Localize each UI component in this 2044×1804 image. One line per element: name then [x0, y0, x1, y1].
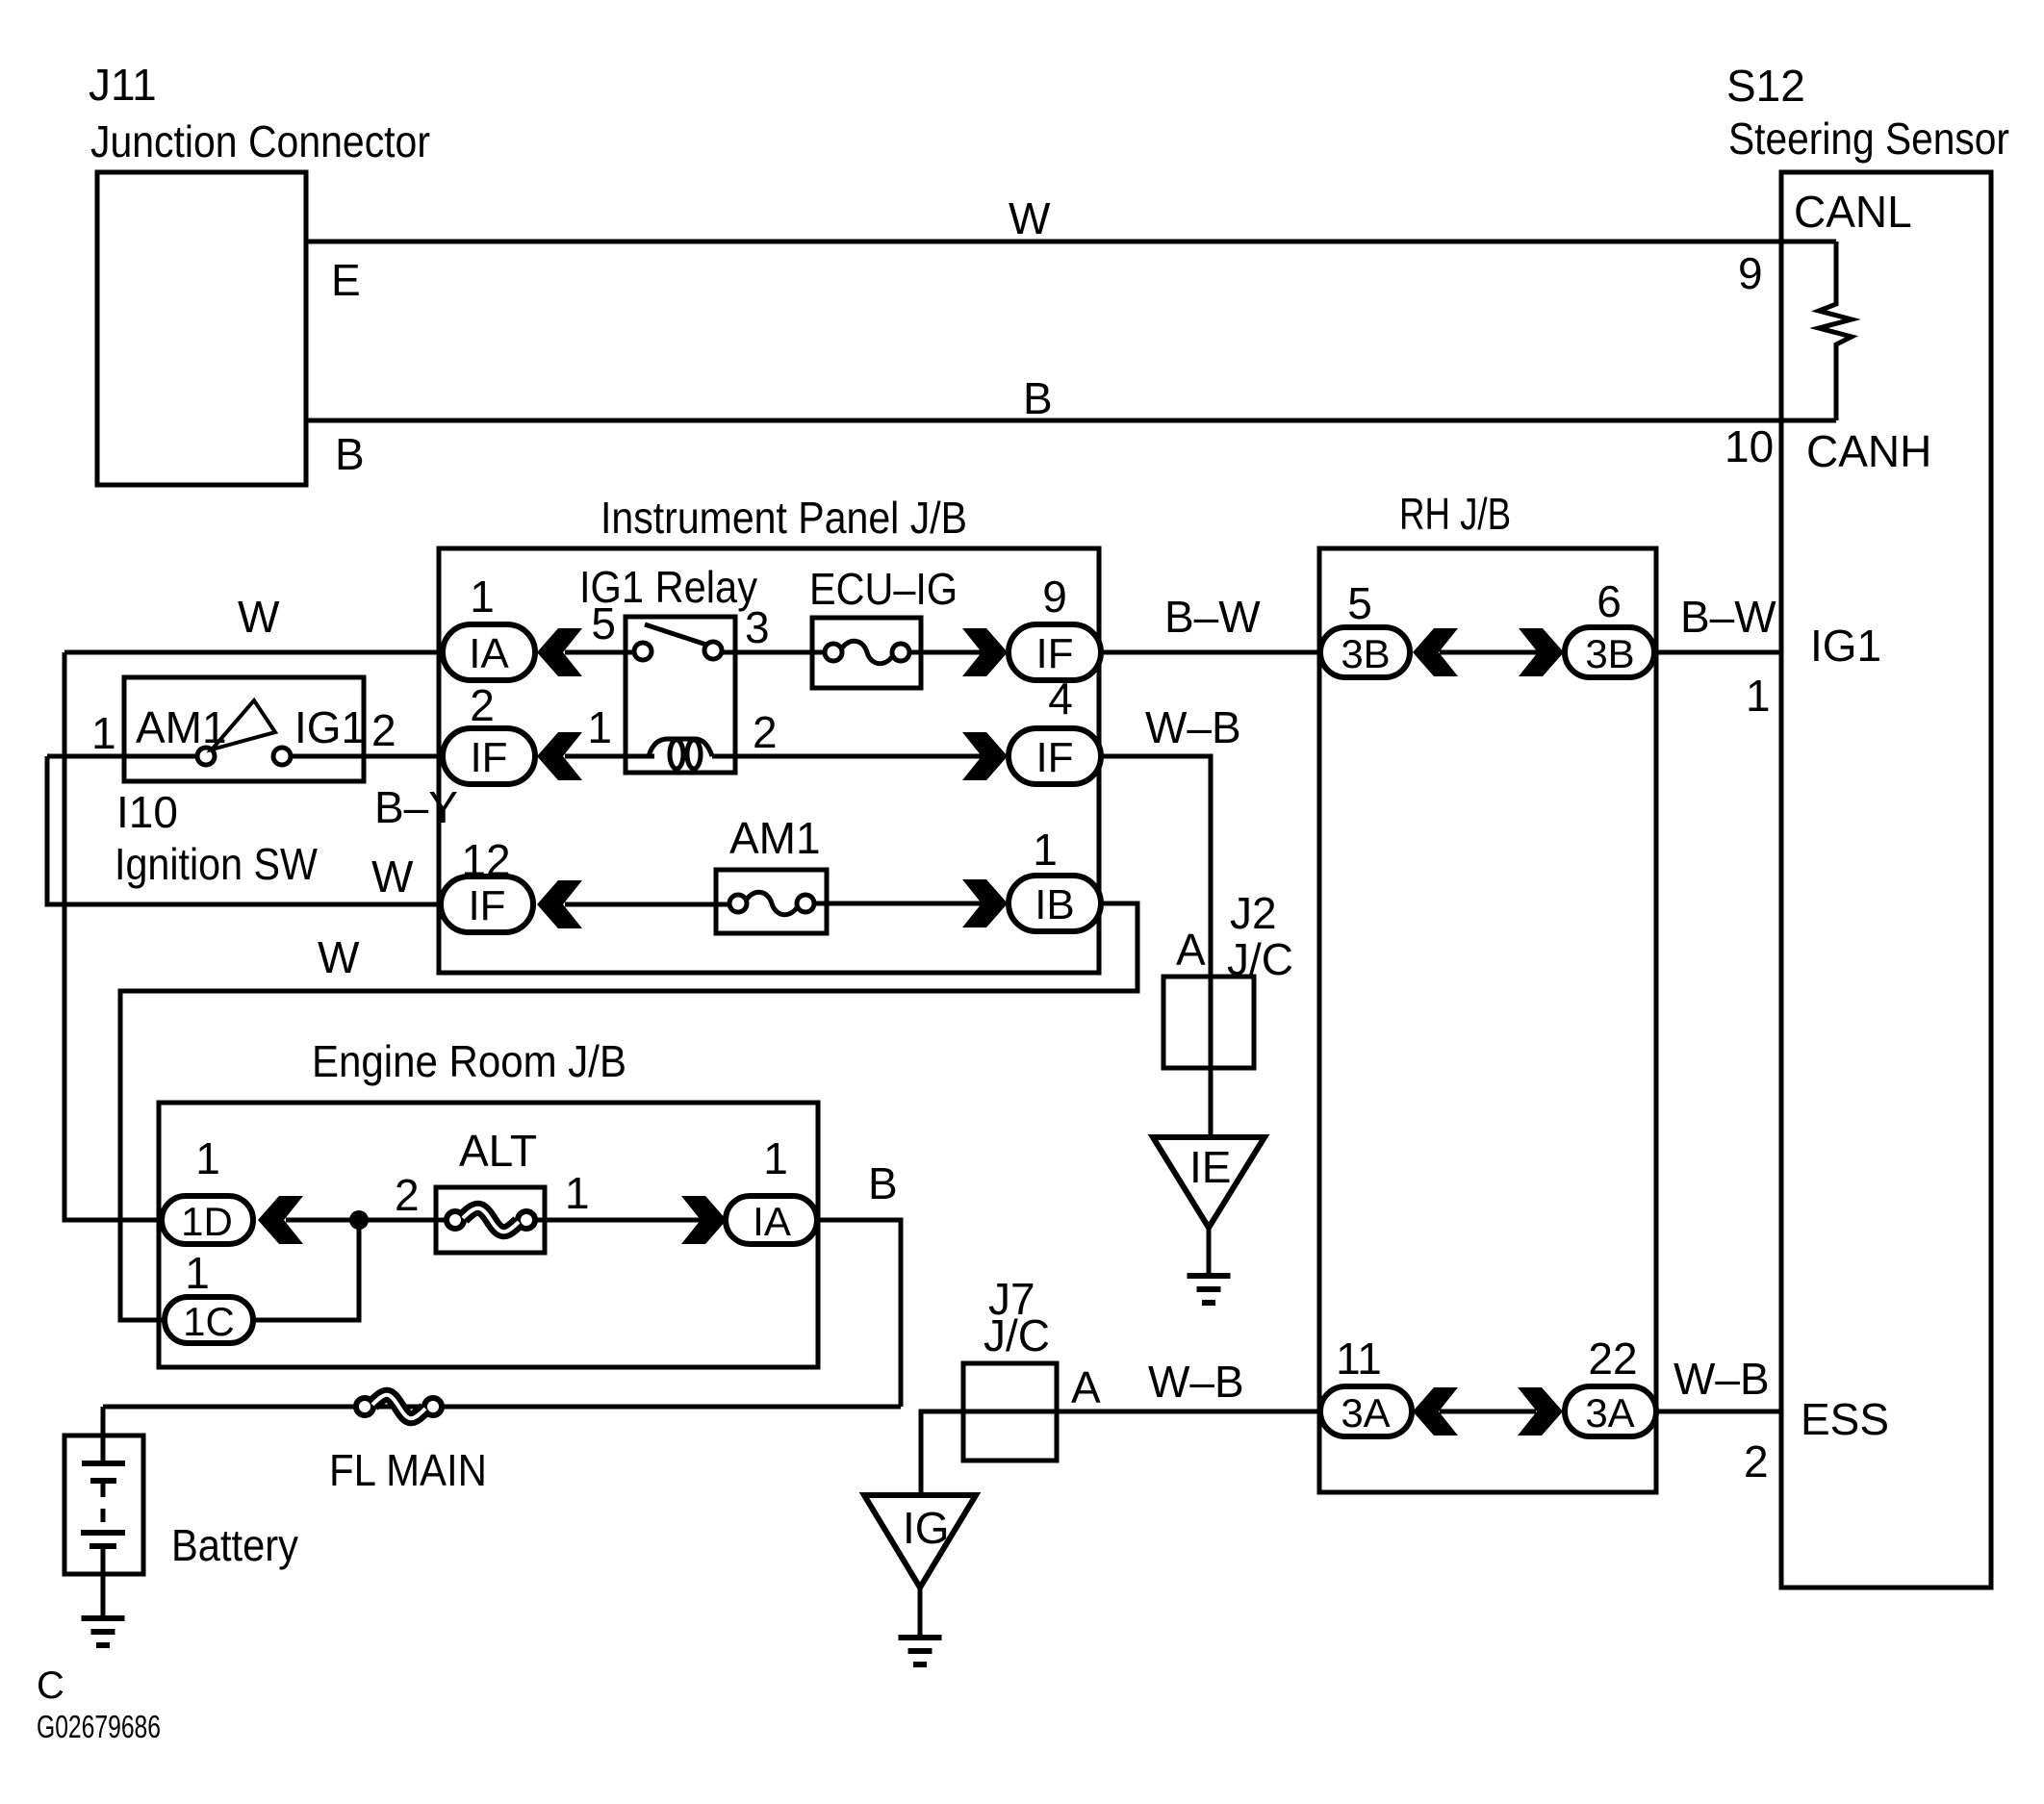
svg-text:1: 1 [195, 1133, 220, 1183]
junction connector J2 box [1163, 977, 1254, 1068]
svg-text:Junction Connector: Junction Connector [90, 116, 430, 166]
svg-text:ESS: ESS [1801, 1394, 1889, 1444]
svg-text:2: 2 [753, 707, 778, 757]
svg-text:IF: IF [470, 734, 507, 781]
connector IF pin 9 [1009, 624, 1101, 680]
chevron at IF 2 [537, 732, 582, 780]
wire battery negative lead [101, 1546, 106, 1618]
fuse ALT box [436, 1187, 545, 1253]
svg-text:Battery: Battery [171, 1520, 298, 1570]
instrument panel J/B box [439, 548, 1099, 973]
svg-text:2: 2 [1744, 1436, 1769, 1486]
battery plate short top [90, 1478, 116, 1484]
svg-text:W: W [1009, 193, 1051, 243]
svg-text:ALT: ALT [459, 1126, 537, 1176]
ground symbol (battery) [82, 1615, 125, 1621]
svg-text:AM1: AM1 [729, 813, 821, 863]
junction connector J7 box [963, 1363, 1057, 1461]
svg-text:3: 3 [745, 602, 770, 652]
svg-text:2: 2 [470, 680, 495, 730]
wire W-B: IG ground stub to 3A-11 [921, 1411, 1323, 1494]
svg-text:Instrument Panel J/B: Instrument Panel J/B [600, 493, 967, 543]
wire 1D chevron to ALT [286, 1218, 457, 1223]
junction connector J11 [97, 172, 306, 485]
svg-text:IF: IF [1035, 734, 1073, 781]
relay switch arm [645, 624, 706, 645]
svg-text:A: A [1071, 1362, 1101, 1412]
junction node (ALT/1C) [349, 1210, 369, 1230]
svg-text:CANL: CANL [1794, 187, 1912, 237]
svg-text:B: B [868, 1158, 898, 1208]
svg-text:1D: 1D [181, 1199, 233, 1244]
chevron at 3A-11 [1413, 1387, 1458, 1436]
svg-text:11: 11 [1336, 1334, 1382, 1384]
svg-text:FL MAIN: FL MAIN [329, 1445, 487, 1495]
chevron into IA engine [681, 1196, 727, 1244]
wire B: IA to FL MAIN [818, 1220, 901, 1407]
wire 1C to junction node [253, 1220, 359, 1320]
svg-text:5: 5 [1347, 578, 1372, 628]
chevron at IA [537, 628, 582, 676]
wire W: ignition 1 loop to IF 12 [47, 756, 443, 904]
wire chevron to relay pin 5 [565, 650, 637, 655]
chevron into IF 9 [962, 628, 1008, 676]
svg-text:ECU–IG: ECU–IG [809, 564, 958, 614]
svg-text:J/C: J/C [984, 1310, 1050, 1360]
ignition contact IG1 [273, 748, 291, 765]
battery plate short bottom [89, 1543, 116, 1549]
connector IF pin 12 [441, 877, 533, 932]
svg-text:AM1: AM1 [136, 702, 227, 752]
wire ALT to chevron [535, 1218, 702, 1223]
svg-text:CANH: CANH [1806, 426, 1931, 476]
svg-text:2: 2 [371, 705, 396, 755]
svg-text:1: 1 [91, 708, 116, 758]
svg-text:C: C [37, 1664, 64, 1707]
svg-text:9: 9 [1042, 572, 1067, 622]
svg-text:B: B [335, 429, 365, 479]
wire chevron to relay coil [565, 754, 654, 759]
svg-text:W–B: W–B [1148, 1357, 1244, 1407]
svg-text:IA: IA [469, 630, 509, 677]
wire B-Y: ignition 2 to IF 2 [290, 754, 445, 759]
ground triangle IE [1153, 1137, 1265, 1228]
svg-text:IG: IG [903, 1503, 950, 1553]
wire into ignition AM1 contact [47, 754, 198, 759]
ignition switch I10 box [124, 677, 364, 781]
fuse AM1 box [716, 870, 827, 933]
wire relay coil to IF 4 [712, 754, 983, 759]
svg-text:G02679686: G02679686 [37, 1709, 161, 1744]
wire IE triangle to ground [1207, 1228, 1212, 1276]
battery cell dashed link [101, 1484, 106, 1530]
svg-text:IG1: IG1 [1810, 621, 1881, 671]
connector IA (instrument panel) [443, 624, 535, 680]
svg-text:Ignition SW: Ignition SW [115, 839, 319, 889]
wire W-B: 3A-22 to S12 ESS [1655, 1410, 1781, 1414]
RH J/B box [1319, 548, 1656, 1492]
engine room J/B box [159, 1103, 818, 1367]
chevron at 3B-6 [1519, 628, 1564, 676]
wire battery positive lead [101, 1407, 106, 1463]
fuse element AM1 [729, 895, 747, 912]
svg-text:1: 1 [587, 702, 612, 752]
svg-text:10: 10 [1725, 421, 1774, 471]
svg-text:W–B: W–B [1145, 702, 1241, 752]
connector 3B pin 6 [1565, 627, 1654, 677]
svg-text:IG1 Relay: IG1 Relay [579, 562, 757, 612]
chevron into IF 4 [962, 732, 1008, 780]
svg-text:IE: IE [1189, 1142, 1231, 1192]
chevron at IF 12 [537, 880, 582, 928]
chevron at 3A-22 [1518, 1387, 1563, 1436]
svg-text:W–B: W–B [1674, 1354, 1770, 1404]
wire FL MAIN: battery to B junction [103, 1405, 901, 1410]
svg-text:9: 9 [1738, 248, 1763, 298]
wire B-W: 3B-6 to S12 IG1 [1654, 650, 1781, 655]
wire chevron to AM1 fuse [565, 902, 738, 907]
connector 1D [162, 1196, 253, 1244]
svg-text:1: 1 [1033, 825, 1058, 875]
svg-text:Steering Sensor: Steering Sensor [1728, 114, 2009, 164]
svg-text:IA: IA [753, 1199, 791, 1244]
ignition contact AM1 [197, 748, 215, 765]
relay coil [649, 739, 712, 756]
connector 3A pin 11 [1320, 1386, 1412, 1436]
wire W: IB loop to 1C [120, 903, 1137, 1320]
wire W-B: IF 4 to J2 junction [1101, 756, 1211, 1139]
chevron at 3B-5 [1413, 628, 1458, 676]
battery plate long top [82, 1461, 125, 1466]
svg-text:1: 1 [763, 1133, 788, 1183]
svg-text:1: 1 [185, 1248, 210, 1298]
chevron into IB [962, 879, 1008, 927]
svg-text:J11: J11 [89, 60, 157, 110]
connector 3A pin 22 [1565, 1386, 1656, 1436]
connector 1C [165, 1297, 253, 1343]
wire W: junction to 1D [64, 652, 166, 1220]
svg-text:Engine Room J/B: Engine Room J/B [312, 1036, 626, 1086]
fuse ECU-IG box [812, 618, 921, 688]
svg-text:IB: IB [1035, 881, 1075, 928]
svg-text:RH J/B: RH J/B [1399, 489, 1511, 539]
svg-text:IG1: IG1 [294, 702, 366, 752]
wire relay pin 3 to fuse [722, 650, 826, 655]
steering sensor S12 [1781, 172, 1991, 1588]
svg-text:IF: IF [1035, 630, 1073, 677]
svg-text:3B: 3B [1585, 631, 1634, 676]
svg-text:B–W: B–W [1164, 592, 1261, 642]
svg-text:4: 4 [1048, 673, 1073, 724]
wire B: J11 pin B to S12 pin 10 CANH [306, 419, 1836, 423]
connector IA (engine room) [726, 1196, 817, 1244]
wire B-W: IF 9 to RH J/B 3B-5 [1101, 650, 1323, 655]
battery plate long bottom [81, 1530, 125, 1536]
ground symbol (IG) [899, 1635, 942, 1640]
svg-text:S12: S12 [1726, 61, 1805, 111]
svg-text:IF: IF [468, 882, 505, 929]
svg-text:B–W: B–W [1680, 592, 1776, 642]
svg-text:6: 6 [1597, 576, 1622, 626]
svg-text:A: A [1176, 925, 1206, 975]
svg-text:B–Y: B–Y [374, 782, 458, 832]
wire between 3A chevrons [1440, 1410, 1536, 1414]
ground symbol (IE) [1188, 1273, 1231, 1279]
wire AM1 fuse to chevron [813, 902, 983, 906]
svg-text:2: 2 [395, 1170, 420, 1220]
wire IG triangle to ground [918, 1588, 923, 1638]
IG1 relay box [626, 617, 735, 773]
relay contact circle left [634, 643, 652, 660]
battery box [64, 1436, 143, 1574]
svg-text:1C: 1C [183, 1299, 235, 1344]
svg-text:3B: 3B [1341, 631, 1390, 676]
ignition switch lever [212, 700, 275, 750]
svg-text:E: E [331, 255, 361, 305]
connector IB pin 1 [1009, 876, 1101, 931]
fusible link FL MAIN [356, 1398, 373, 1415]
chevron at 1D [258, 1196, 303, 1244]
relay contact circle right [704, 642, 722, 659]
fuse element ECU-IG [825, 644, 842, 661]
wire between 3B chevrons [1440, 650, 1539, 655]
svg-text:W: W [318, 932, 360, 982]
svg-text:3A: 3A [1341, 1390, 1390, 1436]
svg-text:J2: J2 [1230, 888, 1277, 938]
svg-text:3A: 3A [1585, 1390, 1634, 1436]
wire W: ignition supply to IA [64, 650, 445, 655]
svg-text:1: 1 [470, 572, 495, 622]
ground triangle IG [864, 1495, 976, 1588]
wire W: J11 pin E to S12 pin 9 CANL [306, 240, 1836, 244]
svg-text:B: B [1023, 373, 1053, 423]
fusible link ALT [447, 1211, 464, 1229]
svg-text:I10: I10 [116, 787, 178, 837]
wire fuse to chevron (row1) [908, 650, 983, 655]
svg-text:W: W [238, 592, 280, 642]
connector 3B pin 5 [1320, 627, 1410, 677]
svg-text:1: 1 [565, 1168, 590, 1218]
svg-text:W: W [371, 851, 414, 902]
connector IF pin 2 [443, 728, 535, 784]
connector IF pin 4 [1009, 728, 1101, 784]
svg-text:22: 22 [1588, 1334, 1637, 1384]
termination resistor inside S12 [1819, 241, 1852, 420]
svg-text:1: 1 [1746, 671, 1771, 721]
